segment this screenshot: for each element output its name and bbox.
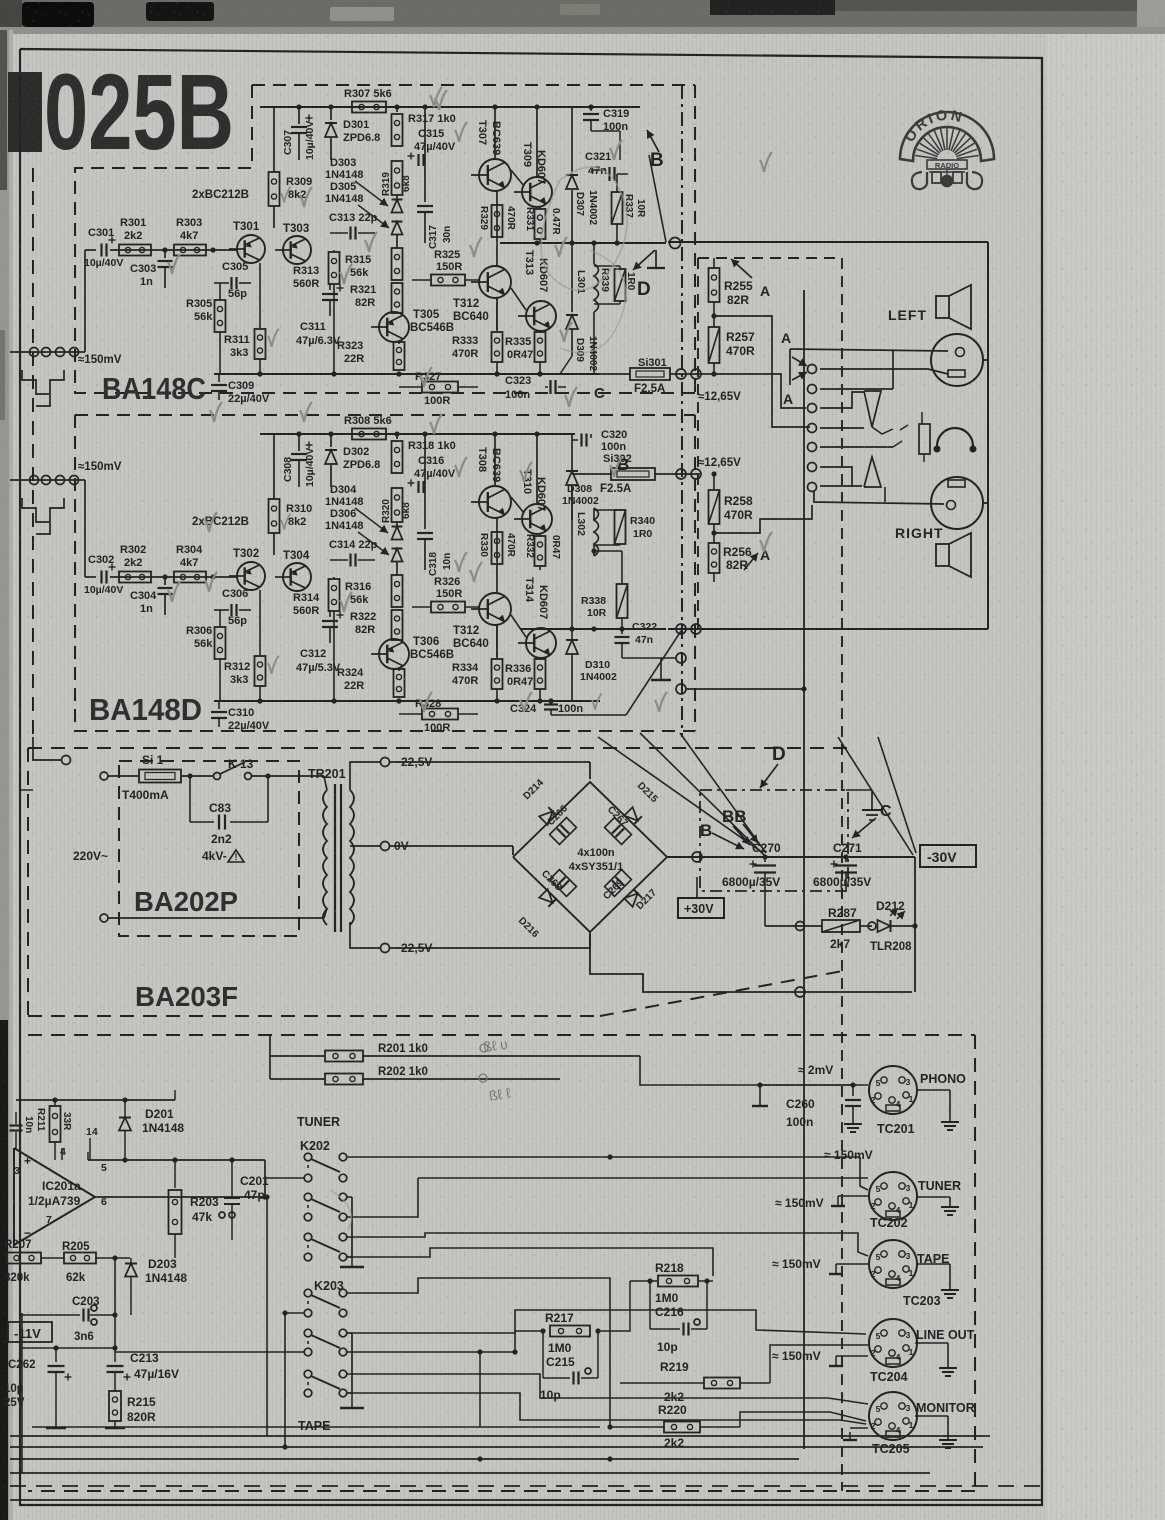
resistor R211 33R [50,1106,61,1142]
switch K13 [214,773,221,780]
wire sw3 [820,392,864,408]
vertical x267 [266,1197,268,1436]
speaker area solid box [668,241,988,243]
transistor T309 KD607 [522,177,552,207]
resistor R301 2k2 [119,245,151,256]
bridge out wire right [667,856,915,858]
pencil squiggle 3 [330,1190,351,1230]
resistor R329 470R [492,205,503,237]
channel right dashed edge ch1 [694,85,696,393]
wire sw4 to triangle [820,427,864,429]
tc202 gnd stub [838,1195,868,1197]
resistor R311 3k3 [259,263,261,328]
net label D arrow ch1 [633,250,655,270]
tuner ground right [917,1196,950,1198]
capacitor C302 [100,571,102,584]
resistor R303 4k7 [174,245,206,256]
stair wire r5 [347,1278,610,1427]
jack contact 2 [921,412,923,424]
capacitor C83 2n2 4kV [189,776,191,822]
headphone jack tip symbol [655,250,657,268]
wire r217 net [598,1281,630,1331]
resistor R304 4k7 [174,572,206,583]
bridge cap C267 [605,818,632,845]
RIGHT speaker icon [936,544,949,566]
amplifier channel 1 inner circuit BA148C [84,87,640,407]
resistor R319 6k8 [392,161,403,195]
wire -30V vert [914,857,916,992]
zener diode D301 ZPD6.8 [330,107,332,120]
BA148C dashed box [252,84,695,86]
long dashed vertical x=842 [841,258,843,1491]
wire fuse line to switch [710,374,806,408]
capacitor C319 100n [590,107,592,111]
opamp out wire [95,1196,265,1198]
bus wire 2 [10,1435,990,1437]
RIGHT DIN connector [931,477,983,529]
wire fb [114,1258,116,1348]
output node terminal ch1 [670,238,681,249]
wire -11V [20,1347,115,1349]
headphone symbol [937,428,973,446]
resistor R215 820R [109,1391,121,1421]
wire output node ch1 [500,242,666,244]
secondary centre tap [350,845,381,847]
bus left verticals [21,1313,23,1473]
bridge diode D215 [624,807,642,825]
channel right dash-dot boundary [681,85,683,737]
switch K202 rows [304,1153,312,1161]
resistor R307 5k6 [352,102,386,113]
diode D308 1N4002 [571,434,573,470]
switch K203 common bar [351,1333,353,1394]
capacitor C318 [424,434,426,529]
transformer TR201 primary [323,790,327,925]
stair wire r6 [347,1331,543,1333]
wire r256 junction link [714,505,812,533]
wire top rail [260,106,640,108]
speaker box right wire [987,242,989,629]
terminal aux ch2 b [676,684,686,694]
capacitor C304 [164,577,166,585]
resistor R306 56k [219,610,221,627]
DIN TC205 MONITOR [869,1392,917,1440]
capacitor C308 [298,434,300,451]
dash-dot box C270 C271 [700,790,848,891]
resistor R316 56k [392,575,403,607]
wire tuner in [860,1157,868,1190]
wire bottom rail [214,373,600,375]
stair wire r1 [347,1156,860,1158]
resistor R312 3k3 [259,590,261,655]
zener diode D302 ZPD6.8 [330,434,332,447]
resistor R321 82R [392,283,403,313]
transistor T312 BC640 [479,593,511,625]
bus wire 1 [32,1426,600,1428]
speaker fader triangle 1 [864,391,881,427]
chassis bracket symbols [22,498,64,522]
stair wire r3 [347,1233,868,1256]
resistor R305 56k [219,283,221,300]
vertical x285 [284,1313,286,1447]
resistor R340 1R0 [615,510,626,544]
diode D310 1N4002 [566,640,578,654]
resistor R302 2k2 [119,572,151,583]
resistor R314 560R [333,577,335,579]
resistor R257 470R [709,327,720,363]
diode D203 1N4148 [125,1264,137,1277]
resistor R336 0R47 [539,658,541,660]
mains terminals [100,772,108,780]
transformer TR201 core [334,784,336,932]
outer dashed boundary left [32,168,34,737]
wire monitor in [828,1398,868,1404]
BA148D dashed box [75,414,695,416]
resistor R322 82R [392,610,403,640]
lineout ground right [915,1342,948,1344]
wire top rail [260,433,575,435]
bus wire 5 [10,1472,930,1474]
transistor T310 KD607 [522,504,552,534]
resistor R308 5k6 [352,429,386,440]
headphone resistor [919,424,930,454]
chassis bracket symbols [22,370,64,394]
psu feed diagonal 1 [598,737,763,853]
net A arrow r256 [744,553,758,570]
switch K202 common bar [351,1197,353,1258]
resistor R255 82R [713,258,715,268]
resistor R337 10R [616,174,618,192]
switch K203 rows [304,1289,312,1297]
bus dashed wire [10,1485,1042,1487]
resistor R323 22R [398,342,400,344]
wire collectors [494,434,496,486]
BA203F dashed box [28,747,848,749]
bus wire 3 [10,1446,983,1448]
psu left entry wires [33,737,62,760]
transistor T306 BC546B [379,639,409,669]
transistor T308 BC639 [479,486,511,518]
pencil squiggle 2 [560,250,626,353]
capacitor C309 22u/40V [218,374,220,382]
bridge cap C266 [550,818,577,845]
preamp dashed box [28,1034,975,1036]
capacitor C303 [164,250,166,258]
jack contact 1 [900,425,908,430]
resistor R324 22R [398,669,400,671]
transistor T307 BC639 [479,159,511,191]
wire ch2 mid [593,545,595,556]
stair wire r4 [347,1248,713,1276]
resistor R201 1k0 [270,1055,324,1057]
terminals on dash line ch2 [676,469,686,479]
DIN TC203 TAPE [869,1240,917,1288]
opamp IC201a triangle [14,1148,95,1245]
psu feed diagonal 5 [878,737,916,853]
wire sw1 to LEFT DIN [820,369,948,374]
wire k203 in2 [115,1351,304,1353]
diode D201 1N4148 [119,1118,131,1131]
wire bottom rail [214,700,600,702]
net diagonal to B [649,155,666,242]
tc203 gnd stub [836,1263,868,1265]
resistor R320 6k8 [392,488,403,522]
tc204 gnd stub [836,1355,868,1357]
resistor R334 470R [496,625,498,659]
resistor R331 0.47R [539,207,541,209]
bus wire 4 [10,1458,799,1460]
resistor R258 470R [713,474,715,490]
wire k202 in [265,1177,304,1179]
psu feed diagonal 2 [640,733,764,855]
secondary bottom wire [350,922,381,948]
transistor T312 BC640 [479,266,511,298]
wire r258 junction [711,530,716,535]
wire base line [110,249,237,251]
capacitor C270 6800u/35V [764,857,766,862]
resistor R202 1k0 [270,1078,324,1080]
resistor R318 1k0 [396,434,398,439]
wire pin14 line [88,1159,265,1161]
BA202P dashed box [119,761,299,936]
bridge rectifier diamond [513,782,667,932]
stair wire r2 [418,1177,868,1179]
transistor T304 [283,563,311,591]
capacitor C317 [424,107,426,202]
resistor R335 0R47 [539,331,541,333]
input terminals [10,351,75,353]
phono ground right [917,1089,950,1091]
net A arrow r255 [731,259,752,278]
resistor R315 56k [392,248,403,280]
resistor R317 1k0 [396,107,398,112]
transformer TR201 secondary [350,790,354,925]
bridge diode D214 [539,807,557,825]
LEFT DIN connector [931,334,983,386]
pencil check marks [168,254,180,274]
net label B arrow [647,130,659,152]
monitor ground right [915,1415,948,1417]
inductor L301 [593,243,595,264]
bridge bottom wire [590,932,912,992]
capacitor C301 [100,244,102,257]
resistor R338 10R [621,551,623,584]
stair wire r8 [347,1393,866,1424]
transistor T303 [283,236,311,264]
inductor L302 [593,508,595,520]
title block digit 1 (cut off) [8,72,42,152]
label +30V box [678,898,724,918]
label -11V box [8,1322,52,1342]
label -30V box [920,845,976,867]
wire output node ch2 [520,628,666,630]
transistor T314 KD607 [526,628,556,658]
speaker fader triangle 2 [864,457,881,487]
tc205 gnd stub [849,1432,851,1440]
capacitor C311 47u/6.3V [329,283,331,290]
long solid vertical x=804 [803,290,805,1449]
resistor R339 1R0 [594,265,620,267]
secondary top wire [350,762,381,790]
amplifier channel 2 inner circuit BA148D [84,414,600,734]
capacitor C213 47u/16V [114,1348,116,1362]
terminal aux ch2 a [676,653,686,663]
capacitor C271 6800u/35V [845,857,847,862]
wire base line [110,576,237,578]
input terminals [10,479,75,481]
transistor T301 [237,235,265,263]
capacitor C312 47u/6.3V [329,610,331,617]
input wire [84,480,86,577]
wire k203 in [285,1312,304,1314]
psu feed diagonal 3 [680,733,766,853]
resistor R310 8k2 [273,434,275,499]
bridge diode D217 [624,889,642,907]
bridge cap C268 [550,870,577,897]
terminals on dash line ch1 [676,369,686,379]
bridge cap C269 [605,870,632,897]
resistor R313 560R [333,250,335,252]
transistor T305 BC546B [379,312,409,342]
wire R201 entry [269,1035,271,1079]
switch contact column [808,365,817,374]
wire sw7 [820,485,862,487]
diagonal wire ch2 out [550,710,552,715]
capacitor C201 47p [231,1160,233,1198]
resistor R203 47k [174,1160,176,1188]
DIN TC202 TUNER [869,1172,917,1220]
stair wire r7 [347,1374,828,1398]
wire r255 junction right [714,316,810,427]
psu ground [871,790,873,810]
wire sw5 [820,446,893,448]
channel right dashed edge ch2 [694,415,696,731]
wire sw2 [820,388,893,390]
wire phono in [640,1056,868,1085]
resistor R309 8k2 [273,107,275,172]
capacitor C320 100n [590,434,592,438]
bus wire 6 [10,1499,1042,1501]
tape ground right [917,1263,950,1265]
diode D309 1N4002 [571,243,573,312]
resistor R256 82R [709,543,720,573]
capacitor 10n input [10,1124,23,1126]
pencil squiggle 1 [541,167,627,290]
capacitor C310 22u/40V [218,701,220,709]
LEFT speaker icon [936,296,949,318]
resistor R333 470R [496,298,498,332]
transistor T302 [237,562,265,590]
wire opamp top [16,1099,175,1101]
psu feed diagonal 4 [838,737,913,855]
wire collectors [494,107,496,159]
bridge diode D216 [539,889,557,907]
terminals output ch2 [676,624,686,634]
ORION logo [900,112,994,161]
resistor R330 470R [492,532,503,564]
wire sw6 [820,467,852,487]
DIN TC204 LINE OUT [869,1319,917,1367]
resistor R332 0.47R [539,534,541,536]
capacitor C322 47n [621,618,623,634]
capacitor C307 [298,107,300,124]
diode D307 1N4002 [571,107,573,172]
speaker area dashed box [698,257,842,259]
input wire [84,250,86,352]
transistor T313 KD607 [526,301,556,331]
DIN TC201 PHONO [869,1066,917,1114]
